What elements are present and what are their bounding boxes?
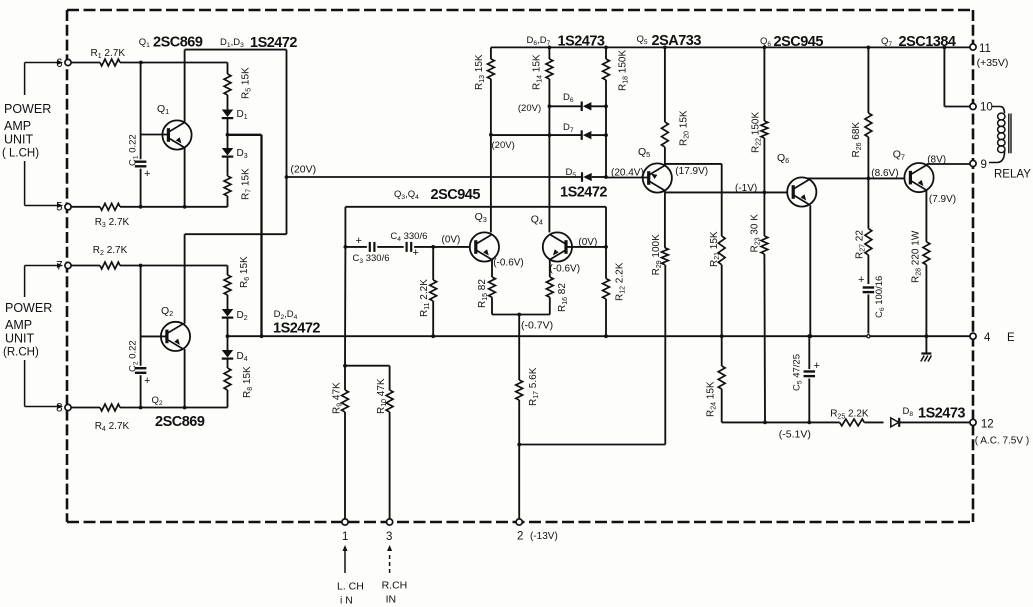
terminal 12: [970, 419, 994, 431]
svg-text:R16​ 82: R16​ 82: [557, 283, 569, 312]
svg-text:2SC945: 2SC945: [431, 187, 481, 203]
resistor R5: [224, 63, 253, 110]
wire 20V line to D5: [287, 176, 582, 178]
wire Q2 collector riser: [184, 234, 186, 324]
svg-text:AMP: AMP: [5, 318, 32, 332]
resistor R29: [651, 192, 668, 275]
svg-text:(-1V): (-1V): [735, 183, 757, 194]
svg-text:L. CH: L. CH: [337, 581, 364, 593]
bracket wire R.CH to pin8: [25, 360, 44, 407]
svg-text:( L.CH): ( L.CH): [2, 148, 39, 160]
svg-text:8: 8: [56, 403, 62, 415]
diode D4: [222, 336, 248, 363]
terminal 9: [970, 159, 987, 171]
transistor Q5 (PNP): [606, 146, 672, 193]
resistor R17: [516, 315, 540, 445]
svg-text:C3​ 330/6: C3​ 330/6: [353, 253, 390, 265]
resistor R16: [519, 260, 569, 315]
wire D-junction column to rail: [260, 135, 264, 338]
terminal 4: [970, 332, 1015, 344]
arrow into pin 7: [44, 263, 63, 268]
wire Q6 emitter to rail: [808, 205, 812, 338]
terminal 2: [516, 519, 523, 543]
wire Q5 collector line: [664, 191, 666, 193]
diode D5: [566, 167, 592, 182]
transistor Q3: [470, 211, 499, 262]
capacitor C4: [390, 231, 427, 259]
label D6,D7 1S2473 type: [527, 34, 605, 50]
svg-text:R3​ 2.7K: R3​ 2.7K: [95, 217, 130, 229]
node R17 bottom: [517, 443, 521, 447]
terminal 1: [342, 519, 349, 543]
svg-text:9: 9: [981, 159, 987, 171]
svg-text:R13​ 15K: R13​ 15K: [474, 54, 486, 90]
svg-text:R29​ 100K: R29​ 100K: [651, 234, 663, 275]
svg-text:R4​ 2.7K: R4​ 2.7K: [95, 421, 130, 433]
capacitor C5: [792, 334, 820, 424]
svg-text:IN: IN: [386, 594, 397, 606]
resistor R3: [71, 203, 140, 229]
wire D1-D3 junction to right column: [228, 134, 262, 136]
capacitor C2: [128, 266, 151, 408]
svg-text:R26​ 68K: R26​ 68K: [851, 122, 863, 158]
wire C3 to C4: [377, 246, 403, 248]
resistor R2: [71, 245, 140, 269]
svg-text:4: 4: [984, 332, 991, 344]
svg-text:R7​ 15K: R7​ 15K: [241, 168, 253, 200]
svg-text:1: 1: [342, 531, 348, 543]
diode D3: [222, 135, 248, 160]
svg-text:C6​ 100/16: C6​ 100/16: [874, 276, 886, 318]
svg-text:E: E: [1007, 332, 1015, 344]
transistor Q1: [141, 103, 192, 150]
node -0.7V: [517, 313, 521, 317]
svg-text:+: +: [356, 235, 362, 247]
svg-text:7: 7: [56, 261, 62, 273]
relay coil: [989, 107, 1011, 163]
svg-text:R20​ 15K: R20​ 15K: [679, 110, 691, 146]
svg-text:(0V): (0V): [578, 237, 597, 248]
svg-text:3: 3: [386, 531, 392, 543]
svg-text:(-0.6V): (-0.6V): [493, 258, 524, 269]
svg-text:(8.6V): (8.6V): [871, 168, 898, 179]
resistor R7: [224, 157, 253, 207]
svg-text:R27​ 22: R27​ 22: [855, 230, 867, 259]
svg-text:5: 5: [56, 202, 62, 214]
svg-text:C4​ 330/6: C4​ 330/6: [390, 231, 427, 243]
resistor R9: [332, 366, 349, 519]
wire input top line: [345, 207, 606, 247]
terminal 10: [970, 102, 993, 114]
arrow into terminal 3: [387, 545, 392, 573]
svg-text:+: +: [144, 168, 150, 180]
label POWER AMP UNIT (L.CH): [2, 102, 51, 160]
resistor R21: [709, 231, 725, 338]
wire Q4 collector column: [548, 106, 550, 232]
wire Q2 emitter: [184, 349, 186, 408]
wire terminal 10 riser to rail: [943, 46, 970, 107]
wire Q1 emitter: [184, 148, 186, 207]
transistor Q4 (mirrored): [531, 214, 606, 262]
node R2-C2: [139, 264, 143, 268]
label Q2 2SC869 type: [152, 395, 205, 430]
svg-text:2SC869: 2SC869: [153, 35, 203, 51]
node C3 left: [344, 245, 348, 249]
svg-text:R17​ 5.6K: R17​ 5.6K: [528, 367, 540, 406]
resistor R13: [474, 47, 494, 134]
diode D8: [891, 406, 970, 427]
label Q6 2SC945 type: [760, 34, 823, 50]
wire 20V column: [185, 50, 287, 235]
svg-text:+: +: [413, 247, 419, 259]
svg-text:R24​ 15K: R24​ 15K: [706, 381, 718, 417]
svg-text:(17.9V): (17.9V): [675, 166, 708, 177]
svg-text:1S2472: 1S2472: [250, 35, 297, 51]
resistor R15: [477, 260, 519, 315]
svg-text:R5​ 15K: R5​ 15K: [241, 67, 253, 99]
node Q4 base: [604, 245, 608, 249]
resistor R23: [750, 192, 768, 422]
terminal 3: [386, 519, 393, 543]
wire Q3 collector column: [490, 135, 492, 233]
resistor R12: [603, 247, 627, 338]
terminal 6: [56, 58, 71, 70]
wire -1V line: [665, 191, 788, 193]
svg-text:6: 6: [56, 58, 62, 70]
resistor R18: [603, 46, 630, 178]
svg-text:2: 2: [517, 531, 523, 543]
svg-text:(-13V): (-13V): [530, 531, 558, 542]
node D1-D3 junction: [226, 119, 230, 137]
arrow into pin 6: [44, 60, 63, 65]
svg-text:(20V): (20V): [518, 103, 541, 114]
svg-text:R6​ 15K: R6​ 15K: [239, 256, 251, 288]
svg-text:+: +: [858, 274, 864, 286]
arrow into pin 8: [44, 404, 63, 409]
diode D7: [491, 122, 608, 140]
arrow into terminal 1: [343, 545, 348, 573]
wire input column to R9/R10: [343, 247, 347, 368]
svg-text:R18​ 150K: R18​ 150K: [618, 50, 630, 91]
svg-text:( A.C. 7.5V ): ( A.C. 7.5V ): [975, 436, 1029, 447]
wire bottom of Q1 block: [139, 205, 228, 209]
node R11 top: [414, 245, 435, 249]
transistor Q6: [777, 152, 816, 207]
wire bottom of Q2 block: [139, 406, 228, 410]
svg-text:2SC869: 2SC869: [155, 414, 205, 430]
svg-text:(7.9V): (7.9V): [929, 194, 956, 205]
terminal 11: [970, 43, 991, 55]
capacitor C1: [128, 63, 151, 207]
arrow into pin 5: [44, 203, 63, 208]
transistor Q7: [868, 149, 933, 193]
bracket wire R.CH to pin7: [25, 266, 44, 298]
svg-text:R25​ 2.2K: R25​ 2.2K: [830, 409, 869, 421]
label POWER AMP UNIT (R.CH): [3, 301, 52, 359]
wire -13V feed line: [519, 265, 665, 445]
label R.CH IN: [382, 580, 408, 606]
capacitor C3: [345, 235, 389, 265]
resistor R4: [71, 404, 140, 433]
wire node to R5: [141, 62, 228, 64]
resistor R11: [419, 247, 437, 338]
svg-text:10: 10: [980, 102, 993, 114]
wire Q6 collector to 8.6V node: [807, 177, 868, 179]
resistor R27: [855, 178, 872, 284]
svg-text:POWER: POWER: [5, 301, 52, 315]
svg-text:POWER: POWER: [4, 102, 51, 116]
wire Q7 collector to terminal 9: [927, 164, 970, 165]
svg-text:R10​ 47K: R10​ 47K: [376, 378, 388, 414]
node 8.6V: [867, 177, 871, 181]
wire main rail E: [228, 335, 970, 337]
svg-text:R.CH: R.CH: [382, 580, 408, 592]
svg-text:C1​ 0.22: C1​ 0.22: [128, 134, 140, 166]
wire node to R6: [141, 265, 228, 267]
svg-text:R8​ 15K: R8​ 15K: [242, 366, 254, 398]
svg-text:1S2472: 1S2472: [273, 321, 320, 337]
label Q3,Q4 2SC945 type: [394, 187, 480, 203]
svg-text:(20V): (20V): [492, 140, 515, 151]
wire top rail +: [491, 46, 970, 48]
wire Q5 emitter to R21: [665, 164, 722, 236]
svg-text:(-0.6V): (-0.6V): [550, 264, 581, 275]
capacitor C6: [858, 274, 886, 334]
svg-text:(+35V): (+35V): [977, 57, 1009, 69]
svg-text:UNIT: UNIT: [5, 332, 35, 346]
resistor R24: [706, 336, 726, 422]
resistor R6: [224, 256, 251, 309]
resistor R28: [911, 190, 930, 352]
svg-text:R12​ 2.2K: R12​ 2.2K: [615, 262, 627, 301]
svg-text:UNIT: UNIT: [4, 133, 34, 147]
svg-text:R9​ 47K: R9​ 47K: [332, 382, 344, 414]
svg-text:R23​ 30 K: R23​ 30 K: [750, 214, 762, 253]
svg-text:(-5.1V): (-5.1V): [779, 429, 811, 441]
svg-text:C5​ 47/25: C5​ 47/25: [792, 354, 804, 391]
bracket wire L.CH to pin6: [25, 63, 44, 96]
wire Q1 collector riser: [185, 50, 287, 123]
svg-text:2SC1384: 2SC1384: [899, 34, 956, 50]
resistor R10: [345, 366, 393, 519]
dashed border of protection-circuit unit: [67, 10, 973, 522]
svg-text:(20V): (20V): [290, 164, 316, 176]
svg-text:(0V): (0V): [442, 235, 461, 246]
node R1-C1: [139, 61, 143, 65]
node 20V: [285, 175, 289, 179]
terminal 7: [56, 261, 71, 273]
terminal 5: [56, 202, 71, 214]
resistor R14: [532, 46, 553, 107]
resistor R26: [851, 46, 872, 179]
node C6 at rail: [867, 335, 870, 338]
svg-text:1S2473: 1S2473: [558, 34, 605, 50]
svg-text:i N: i N: [340, 595, 353, 607]
diode D2: [222, 309, 248, 322]
label D2,D4 1S2472 type: [273, 309, 320, 337]
svg-text:R1​ 2.7K: R1​ 2.7K: [91, 48, 126, 60]
svg-text:R11​ 2.2K: R11​ 2.2K: [419, 279, 431, 317]
label Q1 2SC869 type: [139, 35, 203, 51]
node D2-D4 junction: [226, 318, 230, 338]
label L.CH IN: [337, 581, 364, 607]
label Q5 2SA733 type: [637, 33, 702, 49]
label Q7 2SC1384 type: [881, 34, 956, 50]
resistor R1: [71, 48, 140, 66]
svg-text:+: +: [144, 375, 150, 387]
wire to Q3 base: [433, 246, 470, 248]
diode D6: [548, 92, 608, 111]
svg-text:RELAY: RELAY: [994, 169, 1031, 181]
resistor R22: [751, 46, 768, 195]
svg-text:C2​ 0.22: C2​ 0.22: [128, 340, 140, 372]
svg-text:+: +: [814, 360, 820, 372]
svg-text:2SC945: 2SC945: [774, 34, 824, 50]
resistor R8: [224, 359, 254, 407]
svg-text:(R.CH): (R.CH): [3, 347, 39, 359]
svg-text:R21​ 15K: R21​ 15K: [709, 231, 721, 267]
diode D1: [222, 109, 248, 121]
node R23 bottom: [763, 421, 767, 425]
wire -5.1V line: [722, 421, 840, 423]
svg-text:R2​ 2.7K: R2​ 2.7K: [93, 245, 128, 257]
terminal 8: [56, 403, 71, 415]
svg-text:R14​ 15K: R14​ 15K: [532, 54, 544, 90]
wire D5 to node 20.4V: [592, 175, 608, 179]
node R13 bottom: [489, 133, 493, 137]
svg-text:11: 11: [979, 43, 991, 55]
svg-text:2SA733: 2SA733: [652, 33, 702, 49]
svg-text:1S2472: 1S2472: [560, 185, 607, 201]
bracket wire L.CH to pin5: [25, 161, 44, 206]
wire to terminal 2: [518, 445, 520, 519]
svg-text:AMP: AMP: [4, 119, 31, 133]
ground: [921, 354, 932, 362]
resistor R20: [662, 46, 691, 166]
resistor R25: [830, 409, 883, 426]
svg-text:1S2473: 1S2473: [918, 406, 965, 422]
transistor Q2: [141, 305, 190, 351]
svg-text:R22​ 150K: R22​ 150K: [751, 112, 763, 153]
svg-text:12: 12: [981, 419, 994, 431]
label D1,D3 1S2472 type: [220, 35, 297, 51]
svg-text:R15​ 82: R15​ 82: [477, 279, 489, 308]
svg-text:(-0.7V): (-0.7V): [521, 320, 553, 332]
